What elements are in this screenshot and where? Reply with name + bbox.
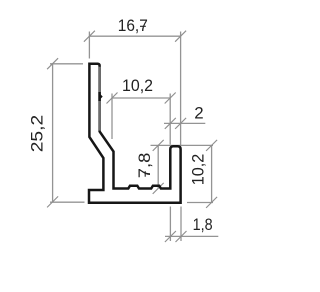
svg-text:1,8: 1,8 bbox=[193, 216, 213, 234]
tick 10,2 right bottom bbox=[206, 197, 217, 208]
tick 25,2 bottom bbox=[47, 196, 58, 207]
extension line 10,2 middle left bbox=[111, 94, 113, 140]
dimension line 2 bbox=[164, 122, 205, 124]
tick 25,2 top bbox=[47, 58, 58, 69]
tick 16,7 right bbox=[175, 31, 186, 42]
extension line 16,7 right / wall outer face bbox=[180, 32, 182, 149]
extension line 25,2 bottom bbox=[50, 201, 85, 203]
upper wall inner face (lighter) bbox=[98, 67, 100, 131]
tick 16,7 left bbox=[84, 31, 95, 42]
dimension line 10,2 middle bbox=[112, 97, 170, 99]
tick 2 left bbox=[165, 118, 176, 129]
dimension line 7,8 bbox=[157, 145, 159, 188]
profile outline bbox=[89, 64, 181, 203]
extension line 16,7 left bbox=[88, 32, 90, 59]
tick 2 right bbox=[175, 118, 186, 129]
dimension line 10,2 right bbox=[211, 145, 213, 202]
tick 7,8 bottom bbox=[153, 183, 164, 194]
extension line 25,2 top bbox=[50, 63, 83, 65]
svg-text:10,2: 10,2 bbox=[189, 154, 207, 186]
tick 1,8 right bbox=[176, 231, 187, 242]
crossbar of 7 in 16,7 bbox=[140, 25, 146, 27]
extension line 1,8 right bbox=[180, 207, 182, 242]
extension line 10,2 middle right / 2 left bbox=[169, 94, 171, 145]
dimension line 25,2 bbox=[52, 64, 54, 202]
tick 10,2 middle right bbox=[165, 93, 176, 104]
barb on inner face of upper wall bbox=[98, 92, 100, 101]
dimension line 16,7 bbox=[89, 35, 180, 37]
tick 7,8 top bbox=[153, 140, 164, 151]
dimension line 1,8 bbox=[165, 235, 218, 237]
svg-text:25,2: 25,2 bbox=[28, 115, 46, 153]
extension line 7,8 top and 10,2 right top bbox=[151, 144, 214, 146]
tick 1,8 left bbox=[165, 231, 176, 242]
svg-text:10,2: 10,2 bbox=[122, 77, 153, 95]
extension line 10,2 right bottom bbox=[187, 202, 213, 204]
extension line 1,8 left bbox=[169, 207, 171, 242]
crossbar of 7 in 7,8 bbox=[144, 171, 146, 177]
svg-text:2: 2 bbox=[194, 105, 203, 123]
tick 10,2 middle left bbox=[107, 93, 118, 104]
tick 10,2 right top bbox=[206, 140, 217, 151]
